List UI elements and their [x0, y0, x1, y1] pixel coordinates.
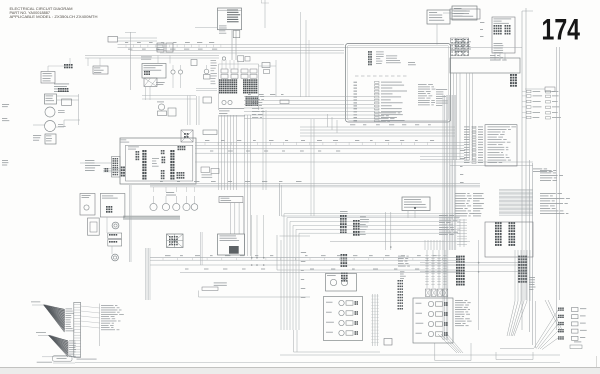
fuse F2: [62, 99, 72, 105]
terminal strip vertical: [74, 302, 81, 357]
JB1 cells 1: [136, 151, 138, 153]
small boxes right of RB1: [262, 63, 270, 68]
wire bottom right: [500, 348, 534, 350]
bus wires mid left: [244, 96, 374, 98]
bus wires mid 2: [150, 183, 480, 185]
wide box right: [450, 58, 520, 73]
gauge oval P4: [112, 222, 119, 229]
connector strip mid: [456, 256, 458, 258]
wire bundle centre 2: [244, 115, 246, 256]
bus labels right-mid: [398, 255, 405, 258]
wire: [78, 94, 80, 125]
strip bottom wire: [42, 356, 81, 358]
fan 2 labels: [69, 340, 75, 343]
JB1 cells 4: [161, 170, 163, 172]
vertical cluster bundle: [424, 240, 426, 250]
wire bundle centre-down nested corners: [283, 214, 285, 330]
footer strip: [0, 367, 600, 374]
panel box P1: [80, 194, 95, 216]
cable bundle thick: [123, 215, 180, 217]
wire bundle left: [128, 185, 130, 262]
dashed row: [355, 75, 359, 77]
labels right strip: [529, 276, 535, 279]
outer frame bottom A: [434, 343, 436, 361]
label MC: [408, 61, 415, 64]
relay bank right rows: [451, 38, 456, 43]
fan 1 feeder: [32, 304, 44, 306]
starter M1: [158, 104, 164, 110]
connector cells: [64, 64, 66, 66]
pin label column A: [455, 192, 466, 195]
RB1 left text: [211, 59, 217, 62]
wire bundle centre: [218, 115, 220, 190]
RB1 internal wires: [221, 60, 223, 69]
relay output labels: [522, 90, 527, 92]
wires panel: [106, 217, 108, 233]
sensor cluster left SCL: [324, 297, 363, 341]
bus below box: [300, 126, 455, 128]
component stack A: [340, 215, 342, 217]
wire: [443, 12, 452, 14]
JB1 cells 2: [161, 150, 163, 152]
diag fan converge: [534, 310, 558, 350]
wire spine 2: [525, 8, 527, 300]
pump labels right of JB1: [201, 167, 210, 173]
JB1 cells 5: [178, 146, 180, 148]
controller box U1: [218, 8, 242, 30]
RB1 top small boxes: [221, 69, 228, 73]
connector stack small: [510, 74, 512, 76]
frame corner B: [276, 235, 278, 270]
bus lower right: [420, 262, 527, 264]
relay coil 2: [45, 121, 56, 132]
battery relay B1: [45, 94, 57, 104]
bus wires lower: [150, 257, 460, 259]
relay box X1: [427, 10, 450, 24]
wire bundle right spine: [442, 95, 444, 340]
gauge oval P7: [112, 254, 119, 261]
gauge G5: [191, 204, 198, 211]
JB1 dark strip A: [142, 150, 144, 152]
wire right edge 1: [556, 47, 558, 330]
pressure sensor R3: [416, 322, 424, 325]
terminal labels: [85, 159, 94, 162]
pressure sensor R2: [416, 312, 423, 315]
ladder column A: [459, 219, 461, 247]
pressure sensor L2: [326, 311, 332, 314]
RB1 cell band right lower: [246, 96, 247, 98]
crosshatch component X9: [167, 234, 184, 248]
component box E1: [142, 64, 166, 79]
wire bottom 2: [75, 362, 560, 364]
comp E6: [204, 69, 209, 74]
wires gauge to MCF: [229, 203, 231, 235]
diode module: [93, 66, 108, 74]
junction dots: [251, 257, 253, 259]
connector strip CS1: [112, 157, 121, 178]
relay bank top right: [450, 9, 480, 19]
diag fan down: [507, 301, 527, 336]
frame corner A: [279, 183, 281, 216]
small box above JB1: [203, 130, 217, 135]
bus comp: [280, 100, 289, 104]
wire U1 left: [195, 27, 218, 29]
gauge G1: [150, 203, 157, 210]
panel box P6: [108, 240, 122, 247]
component text inside: [386, 55, 397, 58]
SCR diag fan: [438, 334, 463, 353]
round comp E3: [171, 70, 175, 74]
wire spine 3: [529, 160, 531, 332]
RB1 bottom text: [219, 107, 244, 110]
pin label right of spine B: [540, 192, 556, 195]
bottom labels in box: [374, 112, 396, 115]
wires E-panel: [145, 87, 147, 101]
pin text block A: [455, 38, 462, 41]
fusible link box: [45, 134, 56, 144]
gauge G3: [173, 203, 180, 210]
bus wires top: [118, 37, 158, 39]
relay block RB1 frame: [218, 64, 220, 110]
wire spine 1: [521, 11, 523, 330]
scattered wire labels: [125, 41, 128, 44]
relay coil: [45, 107, 55, 117]
connector CN-B: [492, 17, 515, 53]
gauge labels: [166, 191, 174, 194]
text above E1: [141, 56, 152, 59]
wires CN-B down: [494, 53, 496, 60]
pressure sensor L4: [326, 331, 333, 334]
gauge G2: [162, 203, 169, 210]
stack labels: [360, 216, 366, 219]
relay coil text: [58, 109, 65, 112]
component stack A2: [341, 254, 343, 256]
svg-text:174: 174: [542, 14, 581, 47]
wire bundle ticks: [372, 294, 374, 346]
wire drops left: [87, 58, 89, 66]
component K1: [157, 43, 164, 52]
wire spine 4: [532, 163, 534, 345]
wire: [130, 32, 132, 90]
pump controller box: [346, 44, 451, 123]
pressure sensor R4: [416, 332, 422, 335]
ladder columns bottom: [426, 250, 428, 288]
label E7: [156, 81, 165, 84]
component hatch E2: [144, 78, 157, 87]
fan 1 labels: [66, 308, 73, 311]
svg-text:APPLICABLE MODEL : ZX350LCH ZX: APPLICABLE MODEL : ZX350LCH ZX400MTH: [10, 15, 99, 19]
label box: [219, 197, 243, 203]
wire verticals mid: [305, 20, 307, 97]
cells left of JB1: [105, 168, 107, 170]
pin list rows: [375, 81, 380, 83]
wire label column: [101, 304, 114, 307]
wire top entry: [264, 0, 266, 28]
solenoid block MCF: [218, 234, 245, 255]
panel box P2: [88, 218, 100, 235]
wire weave right: [499, 189, 533, 191]
label under MCF: [214, 282, 227, 285]
label right mid: [533, 168, 542, 171]
bus tick stubs mid: [204, 142, 206, 145]
pin labels mid-right: [439, 214, 448, 217]
label battery: [33, 134, 41, 137]
RB1 cell band right: [243, 79, 244, 81]
wires down right: [453, 73, 455, 160]
fuse box F1: [108, 37, 118, 43]
harness fan 1: [43, 305, 65, 332]
small box E5: [191, 60, 197, 66]
outer frame bottom B: [495, 352, 497, 360]
wire right edge 2: [559, 47, 561, 300]
JB1 cells 3: [162, 157, 164, 159]
pressure sensor L1: [326, 301, 333, 304]
cluster labels SCR: [455, 299, 463, 302]
pin labels right block B: [436, 88, 447, 91]
cluster: [54, 83, 69, 86]
wires to JB1: [103, 168, 120, 170]
RB1 coil top: [222, 57, 225, 60]
connector symbol inside: [368, 51, 370, 53]
wire corner lower: [198, 291, 200, 298]
junction box JB1: [120, 138, 196, 184]
wire stem U1: [231, 30, 233, 60]
pin labels right block A: [418, 83, 427, 86]
relay K5: [402, 197, 430, 211]
component stack B: [353, 220, 355, 222]
wires K5: [407, 211, 409, 219]
connector strip right: [518, 256, 520, 258]
pin label right of spine A: [540, 169, 552, 172]
wire bundle centre 3: [262, 110, 264, 190]
comp box E8: [168, 108, 176, 116]
round comp E4: [178, 70, 182, 74]
frame box right: [485, 222, 533, 257]
engine box: [326, 274, 357, 292]
cells JB1 left edge: [121, 167, 123, 169]
RB1 coils: [222, 100, 226, 104]
fan 2 feeder: [38, 335, 49, 337]
left label rows of RLB: [464, 126, 470, 129]
panel box P5: [108, 233, 122, 238]
pressure sensor L3: [326, 321, 334, 324]
pin text block B: [490, 54, 496, 57]
right label box RLB: [485, 125, 517, 166]
JB1 top text: [121, 139, 127, 142]
pin label column B: [473, 192, 484, 195]
inner frame JB1: [126, 145, 193, 181]
wire bundle left 2: [145, 248, 147, 300]
bottom label: [37, 361, 52, 364]
bus wires mid: [195, 141, 464, 143]
pressure sensor R1: [416, 302, 422, 305]
connector CN-A: [233, 31, 240, 38]
bus tick stubs top: [125, 45, 127, 48]
cell column mid: [398, 280, 400, 282]
component stack A3: [341, 272, 343, 274]
bus tick stubs lower: [162, 258, 164, 261]
bus labels: [252, 95, 259, 98]
small box lower: [384, 339, 392, 346]
switch SW1: [41, 72, 55, 84]
ladder column B: [495, 222, 497, 224]
component left of RB1: [203, 97, 212, 103]
label bottom right: [574, 341, 581, 344]
RB1 cell band left: [219, 79, 220, 81]
JB1 cells 6: [177, 172, 179, 174]
wire bottom 1: [280, 354, 560, 356]
relay with X pattern: [181, 130, 193, 142]
leader lines: [81, 306, 100, 328]
sensor cluster right SCR: [413, 298, 453, 343]
harness fan 2: [48, 335, 69, 356]
tiny left labels: [2, 103, 9, 106]
wire x478: [478, 240, 480, 330]
wires MCF sides: [200, 232, 202, 265]
gauge risers: [153, 187, 155, 192]
gauge G4: [183, 203, 190, 210]
page right edge: [596, 356, 598, 367]
label row right: [525, 88, 545, 90]
wire corner: [64, 119, 80, 121]
JB1 text: [128, 146, 139, 149]
wedge outline: [545, 300, 562, 330]
panel box P3: [100, 194, 125, 218]
strip bottom label box: [53, 356, 73, 361]
output bank rows: [558, 308, 560, 309]
relay box X2: [452, 6, 477, 20]
ladder column C: [509, 222, 511, 224]
bundle to bank: [514, 250, 516, 301]
hatch boxes: [426, 289, 431, 297]
JB1 dark strip B: [170, 150, 172, 152]
